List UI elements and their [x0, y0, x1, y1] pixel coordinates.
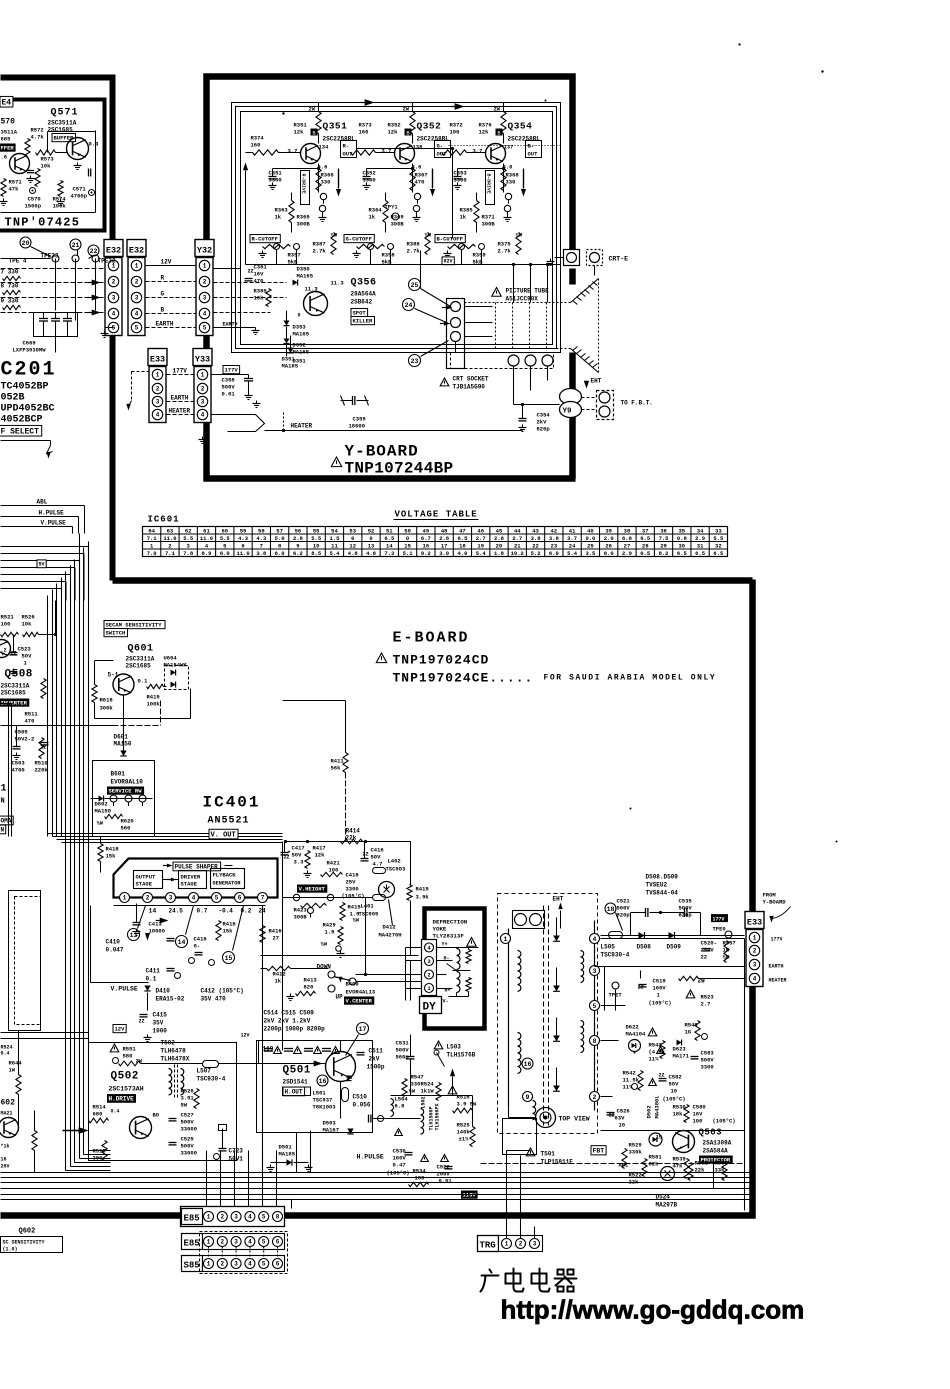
- svg-text:FROM: FROM: [763, 892, 777, 899]
- svg-text:6.7: 6.7: [421, 535, 431, 542]
- svg-text:SC SENSITIVITY: SC SENSITIVITY: [3, 1240, 45, 1246]
- svg-text:E33: E33: [150, 355, 165, 365]
- svg-text:200V: 200V: [437, 1171, 451, 1178]
- svg-text:220k: 220k: [35, 767, 49, 774]
- svg-text:(105'C): (105'C): [342, 893, 365, 900]
- svg-text:15k: 15k: [223, 928, 234, 935]
- svg-text:2SC3311A: 2SC3311A: [126, 656, 155, 663]
- svg-text:2200p 1000p 8200p: 2200p 1000p 8200p: [264, 1026, 326, 1033]
- svg-text:1.8: 1.8: [494, 550, 505, 557]
- svg-text:18000: 18000: [349, 423, 366, 430]
- svg-text:6.0: 6.0: [220, 550, 230, 557]
- svg-text:6.5: 6.5: [640, 535, 651, 542]
- svg-text:EARTH: EARTH: [223, 322, 238, 328]
- svg-text:V.HEIGHT: V.HEIGHT: [299, 886, 326, 893]
- svg-text:9 330: 9 330: [1, 298, 19, 305]
- svg-text:EVOR8AL10: EVOR8AL10: [111, 779, 144, 786]
- svg-text:2SA1309A: 2SA1309A: [703, 1140, 732, 1147]
- svg-text:12k: 12k: [479, 129, 490, 136]
- svg-text:2: 2: [220, 1214, 224, 1221]
- svg-text:21: 21: [72, 242, 80, 249]
- svg-text:1: 1: [123, 895, 127, 902]
- svg-text:C418: C418: [346, 872, 360, 879]
- svg-text:14: 14: [178, 939, 186, 946]
- svg-text:46: 46: [477, 527, 484, 534]
- svg-text:6: 6: [238, 895, 242, 902]
- svg-text:500V: 500V: [181, 1119, 195, 1126]
- svg-text:4.3: 4.3: [256, 535, 267, 542]
- svg-text:R368: R368: [506, 172, 520, 179]
- svg-text:C415: C415: [153, 1012, 168, 1019]
- svg-text:C410: C410: [106, 939, 121, 946]
- svg-text:4700p: 4700p: [71, 193, 88, 200]
- svg-text:18k: 18k: [673, 1111, 684, 1118]
- svg-text:C580: C580: [693, 1104, 706, 1111]
- svg-text:C527: C527: [181, 1112, 194, 1119]
- svg-text:38: 38: [624, 527, 631, 534]
- svg-text:C359: C359: [353, 416, 366, 423]
- svg-text:2: 2: [112, 279, 116, 286]
- svg-text:3: 3: [201, 399, 205, 406]
- svg-text:100: 100: [450, 129, 460, 136]
- svg-text:50: 50: [404, 527, 411, 534]
- svg-text:10k: 10k: [41, 163, 52, 170]
- svg-text:2kV: 2kV: [369, 1056, 380, 1063]
- svg-text:0-: 0-: [194, 943, 201, 950]
- svg-text:27: 27: [624, 542, 631, 549]
- svg-text:3300: 3300: [701, 1064, 714, 1071]
- svg-text:100: 100: [1, 621, 11, 628]
- svg-text:2: 2: [203, 279, 207, 286]
- svg-text:602: 602: [1, 1099, 16, 1108]
- svg-text:3: 3: [135, 295, 139, 302]
- svg-text:SECAM SENSITIVITY: SECAM SENSITIVITY: [106, 622, 163, 629]
- svg-text:SPOT: SPOT: [353, 310, 367, 317]
- svg-text:177V: 177V: [771, 937, 783, 943]
- svg-text:U604: U604: [164, 655, 178, 662]
- svg-text:23: 23: [411, 358, 419, 365]
- svg-text:R551: R551: [123, 1046, 137, 1053]
- svg-text:6.8: 6.8: [395, 1103, 406, 1110]
- svg-text:820: 820: [304, 984, 314, 991]
- svg-text:R542: R542: [623, 1070, 636, 1077]
- svg-text:http://www.go-gddq.com: http://www.go-gddq.com: [501, 1295, 805, 1325]
- svg-text:7 330: 7 330: [1, 269, 19, 276]
- svg-text:PULSE SHAPER: PULSE SHAPER: [175, 864, 219, 871]
- svg-text:2.7: 2.7: [476, 535, 486, 542]
- svg-text:C510: C510: [353, 1094, 368, 1101]
- svg-text:39: 39: [605, 527, 612, 534]
- svg-text:50V: 50V: [292, 852, 303, 859]
- svg-text:56k: 56k: [331, 765, 342, 772]
- svg-text:5: 5: [203, 325, 207, 332]
- svg-text:300B: 300B: [391, 221, 405, 228]
- svg-text:L507: L507: [197, 1068, 212, 1075]
- svg-text:2SC1685: 2SC1685: [1, 690, 27, 697]
- svg-text:D502: D502: [646, 1105, 653, 1118]
- svg-text:12V: 12V: [161, 259, 172, 266]
- svg-text:160: 160: [251, 142, 261, 149]
- svg-text:4: 4: [248, 1214, 252, 1221]
- svg-text:TPE32: TPE32: [98, 258, 116, 265]
- svg-text:25: 25: [411, 282, 419, 289]
- svg-text:4700: 4700: [12, 767, 25, 774]
- svg-text:32: 32: [715, 542, 722, 549]
- svg-text:0.056: 0.056: [353, 1102, 371, 1109]
- svg-text:3.9 5W: 3.9 5W: [457, 1101, 478, 1108]
- svg-text:7: 7: [261, 895, 265, 902]
- svg-text:9.2: 9.2: [421, 550, 431, 557]
- svg-text:Q502: Q502: [111, 1071, 139, 1083]
- svg-text:R529: R529: [629, 1142, 642, 1149]
- svg-text:R423: R423: [294, 907, 308, 914]
- svg-text:F SELECT: F SELECT: [1, 428, 40, 437]
- svg-text:9: 9: [296, 542, 299, 549]
- svg-text:60: 60: [221, 527, 228, 534]
- svg-text:R523: R523: [701, 994, 715, 1001]
- svg-text:C669: C669: [23, 340, 36, 347]
- svg-text:5V: 5V: [39, 562, 45, 568]
- svg-text:C416: C416: [194, 936, 207, 943]
- svg-text:560: 560: [121, 825, 131, 832]
- svg-text:C201: C201: [1, 359, 57, 382]
- svg-text:UP: UP: [336, 994, 344, 1001]
- svg-text:L503: L503: [447, 1044, 462, 1051]
- svg-text:R419: R419: [416, 886, 429, 893]
- svg-text:TLH1566PX: TLH1566PX: [435, 1103, 441, 1130]
- svg-text:L402: L402: [388, 858, 401, 865]
- svg-text:2: 2: [146, 895, 150, 902]
- svg-text:TRG: TRG: [480, 1241, 496, 1251]
- svg-text:15k: 15k: [106, 853, 117, 860]
- svg-text:20: 20: [22, 240, 30, 247]
- svg-text:MA165: MA165: [293, 331, 310, 338]
- svg-text:MA4270H: MA4270H: [379, 932, 402, 939]
- svg-text:R351: R351: [294, 122, 308, 129]
- svg-text:B0: B0: [153, 1112, 160, 1119]
- svg-text:10.2: 10.2: [511, 550, 524, 557]
- svg-text:52: 52: [368, 527, 375, 534]
- svg-text:TSC909: TSC909: [359, 911, 379, 918]
- svg-text:Q571: Q571: [51, 108, 79, 119]
- svg-text:50V: 50V: [669, 1081, 680, 1088]
- svg-text:3: 3: [753, 962, 757, 969]
- svg-text:11.0: 11.0: [236, 550, 249, 557]
- svg-text:DY: DY: [423, 1002, 437, 1014]
- svg-text:Q602: Q602: [19, 1228, 36, 1236]
- svg-text:2: 2: [220, 1261, 224, 1268]
- svg-text:AN5521: AN5521: [208, 816, 250, 827]
- svg-text:5.5: 5.5: [713, 535, 724, 542]
- svg-text:33000: 33000: [181, 1126, 198, 1133]
- svg-text:UPD4052BC: UPD4052BC: [1, 404, 55, 415]
- svg-text:R385: R385: [460, 207, 474, 214]
- svg-text:R526: R526: [181, 1088, 194, 1095]
- svg-text:22: 22: [90, 248, 98, 255]
- svg-text:1: 1: [1, 784, 7, 795]
- svg-text:8.2: 8.2: [659, 550, 669, 557]
- svg-text:E33: E33: [747, 918, 762, 928]
- svg-text:*1k: *1k: [1, 1144, 10, 1150]
- svg-text:2.7k: 2.7k: [407, 248, 421, 255]
- svg-text:R: R: [161, 275, 165, 282]
- svg-text:HEATER: HEATER: [169, 408, 191, 415]
- svg-text:4: 4: [192, 895, 196, 902]
- svg-text:R644: R644: [9, 1060, 23, 1067]
- svg-text:TNP107244BP: TNP107244BP: [345, 460, 454, 478]
- svg-text:4.7: 4.7: [373, 861, 383, 868]
- svg-text:L505: L505: [601, 944, 616, 951]
- svg-text:2Z: 2Z: [363, 852, 369, 858]
- svg-text:250V: 250V: [701, 947, 715, 954]
- svg-text:23: 23: [551, 542, 558, 549]
- svg-text:OUT: OUT: [437, 151, 448, 158]
- svg-text:H.DRIVE: H.DRIVE: [109, 1096, 135, 1103]
- svg-text:H.PULSE: H.PULSE: [39, 510, 65, 517]
- svg-text:T8K1003: T8K1003: [313, 1104, 337, 1111]
- svg-text:24: 24: [569, 542, 576, 549]
- svg-text:50V1: 50V1: [229, 1156, 244, 1163]
- svg-text:0.047: 0.047: [106, 947, 124, 954]
- svg-text:12: 12: [349, 542, 356, 549]
- svg-text:11%: 11%: [649, 1056, 660, 1063]
- svg-text:3: 3: [593, 968, 597, 975]
- svg-text:5.4: 5.4: [330, 550, 341, 557]
- svg-text:G-CUTOFF: G-CUTOFF: [346, 236, 372, 243]
- svg-text:16: 16: [524, 1061, 532, 1068]
- svg-text:1500p: 1500p: [25, 203, 42, 210]
- svg-text:R359: R359: [473, 252, 486, 259]
- svg-text:(105°C): (105°C): [663, 1096, 686, 1103]
- svg-text:E85: E85: [184, 1214, 200, 1224]
- svg-text:LXFP3930MW: LXFP3930MW: [13, 347, 47, 354]
- svg-text:4.0: 4.0: [457, 550, 467, 557]
- svg-text:7.1: 7.1: [165, 550, 176, 557]
- svg-text:3: 3: [533, 1241, 537, 1248]
- svg-text:10: 10: [619, 1122, 626, 1129]
- svg-text:CRT SOCKET: CRT SOCKET: [453, 376, 489, 383]
- svg-text:MA171: MA171: [673, 1053, 690, 1060]
- svg-text:26V: 26V: [1, 1164, 10, 1170]
- svg-text:R421: R421: [327, 860, 341, 867]
- svg-text:2: 2: [427, 971, 430, 978]
- svg-text:1: 1: [504, 936, 508, 943]
- svg-text:DOWN: DOWN: [317, 964, 332, 971]
- svg-text:3: 3: [112, 295, 116, 302]
- svg-text:3300: 3300: [269, 177, 282, 184]
- svg-text:D509: D509: [667, 944, 682, 951]
- svg-text:1: 1: [135, 263, 139, 270]
- svg-text:22: 22: [701, 954, 708, 961]
- svg-text:2.9: 2.9: [695, 535, 705, 542]
- svg-text:0.7: 0.7: [197, 908, 208, 915]
- svg-text:TSC930-4: TSC930-4: [601, 952, 630, 959]
- svg-text:L401: L401: [361, 903, 375, 910]
- svg-text:26: 26: [605, 542, 612, 549]
- svg-text:0.8: 0.8: [677, 535, 688, 542]
- svg-text:58: 58: [258, 527, 265, 534]
- svg-text:6: 6: [276, 1239, 280, 1246]
- svg-text:MA150: MA150: [95, 808, 112, 815]
- svg-text:D351: D351: [293, 358, 307, 365]
- svg-text:820p: 820p: [537, 426, 551, 433]
- svg-text:62: 62: [185, 527, 192, 534]
- svg-text:1k: 1k: [369, 214, 376, 221]
- svg-text:0: 0: [406, 535, 409, 542]
- svg-text:3: 3: [234, 1239, 238, 1246]
- svg-text:2SC1685: 2SC1685: [48, 127, 74, 134]
- svg-text:½W: ½W: [353, 917, 360, 924]
- svg-text:R525: R525: [457, 1122, 471, 1129]
- svg-text:57: 57: [276, 527, 283, 534]
- svg-text:D602: D602: [95, 801, 108, 808]
- svg-text:0.3: 0.3: [89, 141, 100, 148]
- svg-text:R572: R572: [31, 127, 44, 134]
- svg-text:2SC1573AH: 2SC1573AH: [109, 1086, 144, 1093]
- svg-text:R385: R385: [254, 288, 268, 295]
- svg-text:3.0: 3.0: [439, 550, 449, 557]
- svg-text:2Z: 2Z: [659, 1073, 665, 1079]
- svg-text:(1.0): (1.0): [3, 1247, 18, 1253]
- svg-text:D508: D508: [637, 944, 652, 951]
- svg-text:MA150: MA150: [114, 741, 132, 748]
- svg-text:D501: D501: [279, 1144, 293, 1151]
- svg-text:7.8: 7.8: [183, 550, 194, 557]
- svg-text:3.7: 3.7: [473, 148, 483, 155]
- svg-text:V.PULSE: V.PULSE: [41, 520, 67, 527]
- svg-text:R374: R374: [251, 135, 265, 142]
- svg-text:FLYBACK: FLYBACK: [213, 872, 237, 879]
- svg-text:49: 49: [423, 527, 430, 534]
- svg-text:2kV 2kV 1.2kV: 2kV 2kV 1.2kV: [264, 1018, 311, 1025]
- svg-text:TNP197024CE.....: TNP197024CE.....: [393, 671, 534, 686]
- svg-text:2W: 2W: [403, 106, 410, 113]
- svg-text:T501: T501: [541, 1151, 556, 1158]
- svg-text:160V: 160V: [653, 985, 667, 992]
- svg-text:D623: D623: [673, 1046, 687, 1053]
- svg-text:TVSEU2: TVSEU2: [646, 882, 668, 889]
- svg-text:C354: C354: [537, 412, 551, 419]
- svg-text:177V: 177V: [173, 368, 188, 375]
- svg-text:10k: 10k: [22, 621, 33, 628]
- svg-text:3: 3: [169, 895, 173, 902]
- svg-text:2.8: 2.8: [494, 535, 505, 542]
- svg-text:16: 16: [319, 1078, 327, 1085]
- svg-text:1k: 1k: [275, 214, 282, 221]
- svg-text:8 730: 8 730: [1, 283, 19, 290]
- svg-text:3: 3: [234, 1214, 238, 1221]
- svg-text:C583: C583: [701, 1050, 715, 1057]
- svg-text:Y+: Y+: [442, 942, 448, 948]
- svg-text:5: 5: [262, 1214, 266, 1221]
- svg-text:8.5: 8.5: [311, 550, 322, 557]
- svg-text:C358: C358: [222, 377, 236, 384]
- svg-text:2SC3511A: 2SC3511A: [48, 120, 77, 127]
- svg-text:D410: D410: [156, 988, 171, 995]
- svg-text:R531: R531: [695, 1160, 709, 1167]
- svg-text:22: 22: [532, 542, 539, 549]
- svg-text:TSC903: TSC903: [386, 866, 407, 873]
- svg-text:EARTH: EARTH: [769, 964, 784, 970]
- svg-text:1: 1: [203, 263, 207, 270]
- svg-text:2W: 2W: [309, 106, 316, 113]
- svg-text:L504: L504: [395, 1096, 409, 1103]
- svg-text:TLY28313F: TLY28313F: [433, 933, 465, 940]
- svg-text:PICTURE TUBE: PICTURE TUBE: [506, 288, 550, 295]
- svg-text:470: 470: [25, 718, 35, 725]
- svg-text:1000: 1000: [153, 1028, 168, 1035]
- svg-text:ERA15-02: ERA15-02: [156, 996, 185, 1003]
- svg-text:500V: 500V: [617, 905, 631, 912]
- svg-text:2.8: 2.8: [293, 535, 304, 542]
- svg-text:R415: R415: [348, 904, 362, 911]
- svg-text:V. OUT: V. OUT: [211, 832, 236, 840]
- svg-text:59: 59: [240, 527, 247, 534]
- svg-text:CRT-E: CRT-E: [609, 256, 629, 263]
- svg-text:L502: L502: [421, 1096, 427, 1108]
- svg-text:11.3: 11.3: [331, 280, 345, 287]
- svg-text:2.7: 2.7: [512, 535, 522, 542]
- svg-text:2.7k: 2.7k: [498, 248, 512, 255]
- svg-text:6.5: 6.5: [384, 535, 395, 542]
- svg-text:6: 6: [241, 542, 244, 549]
- svg-text:R539: R539: [673, 1156, 686, 1163]
- svg-text:R416: R416: [223, 921, 236, 928]
- svg-text:37: 37: [642, 527, 649, 534]
- svg-text:E32: E32: [129, 246, 144, 256]
- svg-text:177V: 177V: [713, 917, 725, 923]
- svg-text:3300: 3300: [363, 177, 376, 184]
- svg-text:V.CENTER: V.CENTER: [346, 998, 373, 1005]
- svg-text:C571: C571: [73, 186, 87, 193]
- svg-text:7.3: 7.3: [384, 550, 395, 557]
- svg-text:29: 29: [660, 542, 667, 549]
- svg-text:12V: 12V: [241, 1033, 250, 1039]
- svg-text:R419: R419: [147, 694, 160, 701]
- svg-text:300k: 300k: [100, 705, 114, 712]
- svg-text:052B: 052B: [1, 393, 25, 404]
- svg-text:C519: C519: [653, 978, 666, 985]
- svg-text:E4: E4: [2, 99, 12, 108]
- svg-text:MA165: MA165: [293, 349, 310, 356]
- svg-text:R412: R412: [273, 971, 286, 978]
- svg-text:C412 (105°C): C412 (105°C): [201, 988, 244, 995]
- svg-text:47: 47: [459, 527, 466, 534]
- svg-text:5: 5: [262, 1261, 266, 1268]
- svg-text:STAGE: STAGE: [181, 881, 198, 888]
- svg-text:R387: R387: [313, 241, 326, 248]
- svg-text:R416: R416: [269, 928, 282, 935]
- svg-text:9.0: 9.0: [585, 535, 595, 542]
- svg-text:1.5: 1.5: [330, 535, 341, 542]
- svg-text:82k: 82k: [649, 1161, 660, 1168]
- svg-text:51: 51: [386, 527, 393, 534]
- svg-text:4: 4: [201, 412, 205, 419]
- svg-text:48: 48: [441, 527, 448, 534]
- svg-text:7.5: 7.5: [659, 535, 670, 542]
- svg-text:9: 9: [526, 1094, 530, 1101]
- svg-text:1: 1: [753, 935, 757, 942]
- svg-text:R524: R524: [421, 1081, 435, 1088]
- svg-text:16V: 16V: [693, 1111, 704, 1118]
- svg-text:YOKE: YOKE: [433, 926, 447, 933]
- svg-text:R414: R414: [346, 828, 361, 835]
- svg-text:VOLTAGE TABLE: VOLTAGE TABLE: [395, 510, 478, 520]
- svg-text:C570: C570: [28, 196, 41, 203]
- svg-text:14: 14: [386, 542, 393, 549]
- svg-text:SERVICE RW: SERVICE RW: [109, 788, 143, 795]
- svg-text:2.0: 2.0: [604, 535, 614, 542]
